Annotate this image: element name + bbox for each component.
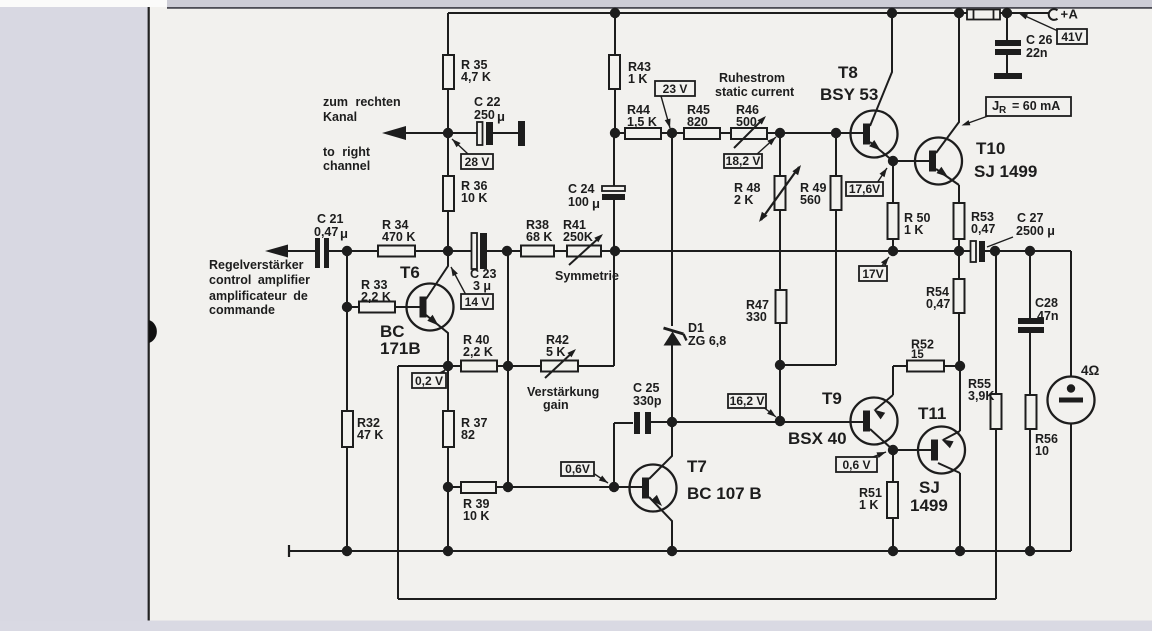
17,6V leader xyxy=(877,168,887,183)
svg-text:T8: T8 xyxy=(838,63,858,82)
resistor R51 xyxy=(887,482,898,518)
wire xyxy=(1029,251,1031,318)
svg-text:gain: gain xyxy=(543,398,569,412)
junction node R39 right xyxy=(503,482,513,492)
svg-text:commande: commande xyxy=(209,303,275,317)
binder hole blob xyxy=(149,320,157,343)
svg-text:5 K: 5 K xyxy=(546,345,565,359)
svg-text:250: 250 xyxy=(474,108,495,122)
wire xyxy=(780,364,836,366)
junction node 14V / T6 collector xyxy=(443,246,453,256)
junction node R40/R42 line xyxy=(503,361,513,371)
0,2V leader xyxy=(441,369,446,374)
wire xyxy=(614,89,616,133)
0,6V T11 leader xyxy=(870,452,886,458)
18,2V leader xyxy=(756,137,776,155)
svg-text:T9: T9 xyxy=(822,389,842,408)
wire xyxy=(398,365,461,367)
svg-text:2,2 K: 2,2 K xyxy=(463,345,493,359)
svg-text:10: 10 xyxy=(1035,444,1049,458)
white top strip xyxy=(0,0,1152,7)
capacitor C21 xyxy=(315,238,320,268)
capacitor C26 xyxy=(995,40,1021,46)
resistor R49 xyxy=(831,176,842,210)
junction node C28 top xyxy=(1025,246,1035,256)
junction ground rail node R56 xyxy=(1025,546,1035,556)
transistor T10 xyxy=(915,138,962,185)
wire xyxy=(615,132,625,134)
wire xyxy=(893,160,929,162)
output jack 4 ohm xyxy=(1048,377,1095,424)
transistor T11 xyxy=(918,427,965,474)
svg-text:17,6V: 17,6V xyxy=(849,182,880,196)
svg-text:T10: T10 xyxy=(976,139,1005,158)
svg-text:1,5 K: 1,5 K xyxy=(627,115,657,129)
svg-text:Symmetrie: Symmetrie xyxy=(555,269,619,283)
wire xyxy=(671,133,673,326)
svg-text:68 K: 68 K xyxy=(526,230,552,244)
svg-text:C 21: C 21 xyxy=(317,212,343,226)
17,6V label box xyxy=(846,182,883,196)
resistor R47 xyxy=(776,290,787,323)
wire xyxy=(398,598,996,600)
svg-text:BSX 40: BSX 40 xyxy=(788,429,847,448)
fuse xyxy=(967,10,1000,20)
svg-text:0,47: 0,47 xyxy=(926,297,950,311)
junction node R33 left xyxy=(342,302,352,312)
wire xyxy=(329,250,378,252)
wire xyxy=(507,251,509,487)
0,6V T7 leader xyxy=(593,473,608,483)
junction node supply rail / C26 xyxy=(1002,8,1012,18)
0,6V T7 label box xyxy=(561,462,594,476)
junction node C25/D1/T7 collector xyxy=(667,417,677,427)
svg-text:μ: μ xyxy=(340,226,348,241)
wire xyxy=(601,250,971,252)
resistor R52 xyxy=(907,361,944,372)
svg-text:μ: μ xyxy=(497,109,505,124)
to-right-channel arrow xyxy=(382,126,406,140)
wire xyxy=(554,250,567,252)
svg-text:C 22: C 22 xyxy=(474,95,500,109)
wire xyxy=(1006,54,1008,73)
wire xyxy=(779,323,781,421)
wire xyxy=(1029,333,1031,551)
svg-text:BC 107 B: BC 107 B xyxy=(687,484,762,503)
wire xyxy=(892,450,894,482)
C22 right terminal bar xyxy=(518,121,525,146)
R42 variable arrow xyxy=(545,351,574,378)
junction node R49 top xyxy=(831,128,841,138)
wire xyxy=(447,13,449,55)
svg-text:Ruhestrom: Ruhestrom xyxy=(719,71,785,85)
wire xyxy=(496,486,642,488)
junction node supply rail / R43 xyxy=(610,8,620,18)
svg-text:1 K: 1 K xyxy=(904,223,923,237)
wire xyxy=(447,89,449,176)
JR leader xyxy=(967,116,988,124)
svg-text:250K: 250K xyxy=(563,230,593,244)
top frame band xyxy=(167,0,1152,7)
svg-text:C28: C28 xyxy=(1035,296,1058,310)
svg-text:15: 15 xyxy=(911,349,924,361)
wire xyxy=(447,211,449,251)
svg-text:0,6V: 0,6V xyxy=(565,462,590,476)
14V leader xyxy=(451,267,466,295)
svg-text:10 K: 10 K xyxy=(463,509,489,523)
17V label box xyxy=(859,266,887,281)
svg-text:static current: static current xyxy=(715,85,795,99)
svg-text:Regelverstärker: Regelverstärker xyxy=(209,258,304,272)
wire xyxy=(779,133,781,176)
svg-text:4,7 K: 4,7 K xyxy=(461,70,491,84)
svg-text:47 K: 47 K xyxy=(357,428,383,442)
wire xyxy=(447,366,449,411)
wire xyxy=(448,486,461,488)
svg-text:1 K: 1 K xyxy=(628,72,647,86)
svg-text:R: R xyxy=(999,105,1007,116)
svg-text:171B: 171B xyxy=(380,339,421,358)
svg-text:3,9K: 3,9K xyxy=(968,389,994,403)
wire xyxy=(395,306,420,308)
wire xyxy=(578,365,614,367)
16,2V label box xyxy=(728,394,766,408)
svg-text:2,2 K: 2,2 K xyxy=(361,290,391,304)
wire xyxy=(405,132,477,134)
R46 variable arrow xyxy=(734,118,764,148)
0,2V label box xyxy=(412,373,446,388)
junction node 28V / R35-R36-C22 xyxy=(443,128,453,138)
svg-text:41V: 41V xyxy=(1061,30,1082,44)
17V leader xyxy=(881,257,889,267)
svg-text:C 27: C 27 xyxy=(1017,211,1043,225)
resistor R55 xyxy=(991,394,1002,429)
resistor R53 xyxy=(954,203,965,239)
resistor R56 xyxy=(1026,395,1037,429)
junction ground rail node T7 emitter xyxy=(667,546,677,556)
transistor T7 xyxy=(630,465,677,512)
wire xyxy=(651,421,863,423)
wire xyxy=(767,132,863,134)
junction node C21/R34 xyxy=(342,246,352,256)
wire xyxy=(497,365,541,367)
wire xyxy=(447,447,449,551)
svg-text:0,6 V: 0,6 V xyxy=(842,458,870,472)
transistor T9 xyxy=(851,398,898,445)
svg-text:0,47: 0,47 xyxy=(314,225,338,239)
wire xyxy=(613,200,615,366)
svg-text:4Ω: 4Ω xyxy=(1081,363,1100,378)
16,2V leader xyxy=(762,406,776,417)
svg-text:to right: to right xyxy=(323,145,371,159)
wire xyxy=(1006,13,1008,40)
junction node C23/R38 xyxy=(502,246,512,256)
svg-text:channel: channel xyxy=(323,159,370,173)
svg-text:zum rechten: zum rechten xyxy=(323,95,401,109)
svg-text:28 V: 28 V xyxy=(465,155,490,169)
svg-text:560: 560 xyxy=(800,193,821,207)
svg-text:SJ 1499: SJ 1499 xyxy=(974,162,1037,181)
svg-text:0,47: 0,47 xyxy=(971,222,995,236)
JR = 60 mA label box xyxy=(986,97,1071,116)
svg-text:μ: μ xyxy=(592,196,600,211)
svg-text:10 K: 10 K xyxy=(461,191,487,205)
junction ground rail node R51 xyxy=(888,546,898,556)
wire xyxy=(614,422,633,424)
wire xyxy=(893,365,907,367)
wire xyxy=(289,550,1071,552)
resistor R44 xyxy=(625,128,661,139)
svg-text:C 26: C 26 xyxy=(1026,33,1052,47)
capacitor C22 xyxy=(477,122,483,145)
wire xyxy=(835,133,837,176)
svg-text:C 24: C 24 xyxy=(568,182,594,196)
resistor R32 xyxy=(342,411,353,447)
wire xyxy=(1070,251,1072,377)
resistor R42 xyxy=(541,361,578,372)
wire xyxy=(415,250,472,252)
wire xyxy=(1070,423,1072,551)
resistor R35 xyxy=(443,55,454,89)
svg-text:2 K: 2 K xyxy=(734,193,753,207)
junction node T8 emitter / T10 base xyxy=(888,156,898,166)
svg-text:23 V: 23 V xyxy=(663,82,688,96)
junction node R47/R49 bottom xyxy=(775,360,785,370)
18,2V label box xyxy=(724,154,762,168)
zener diode D1 xyxy=(664,332,682,346)
svg-text:SJ: SJ xyxy=(919,478,940,497)
resistor R37 xyxy=(443,411,454,447)
wire xyxy=(958,313,960,366)
capacitor C27 xyxy=(971,241,977,262)
svg-text:amplificateur de: amplificateur de xyxy=(209,289,308,303)
scan margin grey strip xyxy=(0,4,148,631)
wire xyxy=(959,366,961,431)
resistor R46 xyxy=(731,128,767,139)
control-amplifier arrow xyxy=(265,245,288,258)
junction node 16.2V / T9 base xyxy=(775,416,785,426)
transistor T6 xyxy=(407,284,454,331)
svg-text:Kanal: Kanal xyxy=(323,110,357,124)
svg-text:T11: T11 xyxy=(918,404,946,423)
wire xyxy=(892,366,894,395)
resistor R41 xyxy=(567,246,601,257)
svg-text:820: 820 xyxy=(687,115,708,129)
wire xyxy=(486,250,521,252)
svg-text:A: A xyxy=(1069,7,1079,22)
junction node 17V / R50 xyxy=(888,246,898,256)
svg-text:22n: 22n xyxy=(1026,46,1048,60)
svg-text:T6: T6 xyxy=(400,263,420,282)
svg-text:3 μ: 3 μ xyxy=(473,279,491,293)
wire xyxy=(346,447,348,551)
wire xyxy=(493,132,518,134)
wire xyxy=(397,366,399,599)
41V leader xyxy=(1024,16,1058,32)
R41 variable arrow xyxy=(569,236,601,265)
transistor T8 xyxy=(851,111,898,158)
resistor R45 xyxy=(684,128,720,139)
svg-text:ZG 6,8: ZG 6,8 xyxy=(688,334,726,348)
svg-text:D1: D1 xyxy=(688,321,704,335)
41V label box xyxy=(1057,29,1087,44)
capacitor C24 xyxy=(602,186,625,191)
svg-text:18,2 V: 18,2 V xyxy=(726,154,761,168)
resistor R48 xyxy=(775,176,786,210)
resistor R38 xyxy=(521,246,554,257)
14V label box xyxy=(461,294,493,309)
resistor R34 xyxy=(378,246,415,257)
wire xyxy=(984,250,1071,252)
svg-text:0,2 V: 0,2 V xyxy=(415,374,443,388)
resistor R36 xyxy=(443,176,454,211)
svg-text:control amplifier: control amplifier xyxy=(209,273,310,287)
wire xyxy=(613,423,615,488)
junction node supply rail / T8 collector xyxy=(887,8,897,18)
wire xyxy=(614,13,616,55)
svg-text:BSY 53: BSY 53 xyxy=(820,85,878,104)
svg-text:16,2 V: 16,2 V xyxy=(730,394,765,408)
junction ground rail node T11 emitter xyxy=(955,546,965,556)
R48 variable arrow xyxy=(761,167,799,220)
wire xyxy=(959,473,961,551)
wire xyxy=(346,251,348,411)
wire xyxy=(671,345,673,422)
wire xyxy=(892,239,894,251)
28V label box xyxy=(461,154,493,169)
svg-text:47n: 47n xyxy=(1037,309,1059,323)
wire xyxy=(269,250,315,252)
wire xyxy=(835,210,837,365)
resistor R40 xyxy=(461,361,497,372)
svg-text:1499: 1499 xyxy=(910,496,948,515)
svg-text:2500 μ: 2500 μ xyxy=(1016,224,1055,238)
svg-text:Verstärkung: Verstärkung xyxy=(527,385,599,399)
wire xyxy=(958,185,960,203)
23V leader xyxy=(661,96,670,128)
wire xyxy=(448,12,967,14)
svg-text:82: 82 xyxy=(461,428,475,442)
junction node T7 base xyxy=(609,482,619,492)
wire xyxy=(995,429,997,599)
resistor R39 xyxy=(461,482,496,493)
svg-text:330: 330 xyxy=(746,310,767,324)
svg-text:470 K: 470 K xyxy=(382,230,415,244)
svg-text:14 V: 14 V xyxy=(465,295,490,309)
junction node 18.2V / R46-R48 xyxy=(775,128,785,138)
junction node R39 left xyxy=(443,482,453,492)
wire xyxy=(893,449,931,451)
bottom scan band xyxy=(0,621,1152,631)
wire xyxy=(958,239,960,279)
junction node R43/R44 xyxy=(610,128,620,138)
junction node R53/R54 xyxy=(954,246,964,256)
resistor R54 xyxy=(954,279,965,313)
svg-text:17V: 17V xyxy=(862,267,883,281)
resistor R43 xyxy=(609,55,620,89)
wire xyxy=(347,306,359,308)
wire xyxy=(1000,12,1049,14)
terminal +A xyxy=(1049,9,1058,20)
resistor R50 xyxy=(888,203,899,239)
resistor R33 xyxy=(359,302,395,313)
junction node R52/R54 xyxy=(955,361,965,371)
capacitor C28 xyxy=(1018,318,1044,324)
junction ground rail node R37 xyxy=(443,546,453,556)
0,6V T11 label box xyxy=(836,457,877,472)
svg-text:C 25: C 25 xyxy=(633,381,659,395)
wire xyxy=(779,210,781,290)
wire xyxy=(892,161,894,203)
wire xyxy=(995,251,997,394)
svg-text:1 K: 1 K xyxy=(859,498,878,512)
junction node 0.2V / R40 xyxy=(443,361,453,371)
svg-text:330p: 330p xyxy=(633,394,662,408)
svg-text:= 60 mA: = 60 mA xyxy=(1012,99,1060,113)
junction node 23V / D1 top xyxy=(667,128,677,138)
23V label box xyxy=(655,81,695,96)
wire xyxy=(892,518,894,551)
capacitor C23 xyxy=(472,233,478,269)
28V leader xyxy=(452,139,468,154)
wire xyxy=(661,132,684,134)
wire xyxy=(944,365,960,367)
svg-text:100: 100 xyxy=(568,195,589,209)
junction node R41/R42 xyxy=(610,246,620,256)
C26 ground terminal bar xyxy=(994,73,1022,79)
junction node C27/R55 xyxy=(990,246,1000,256)
wire xyxy=(720,132,731,134)
wire xyxy=(613,133,615,186)
svg-text:+: + xyxy=(1061,7,1069,22)
bottom rail left terminus xyxy=(288,545,290,557)
C27 leader xyxy=(987,237,1013,247)
capacitor C25 xyxy=(634,412,640,434)
svg-text:T7: T7 xyxy=(687,457,707,476)
junction node supply rail / T10 collector xyxy=(954,8,964,18)
junction ground rail node R32 xyxy=(342,546,352,556)
page left border line xyxy=(148,7,150,626)
junction node 0.6V / T9 emitter / T11 base xyxy=(888,445,898,455)
